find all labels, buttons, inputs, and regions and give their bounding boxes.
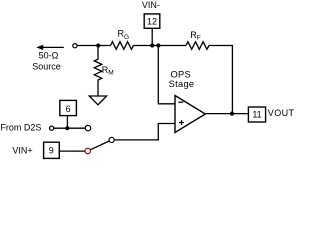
- From D2S terminal circle: [50, 126, 54, 130]
- wire: inverting input from net: [158, 46, 175, 104]
- label: 50-ohm Source: [32, 50, 61, 71]
- arrow annotation to 50-ohm source: [36, 45, 64, 50]
- svg-text:Stage: Stage: [169, 79, 195, 89]
- wire: RG to RF: [134, 45, 187, 47]
- svg-text:VIN+: VIN+: [12, 146, 32, 156]
- op-amp U1 (OPS stage): [175, 96, 205, 133]
- wire: RF to feedback corner: [209, 45, 233, 47]
- pin 6 box: [60, 100, 77, 115]
- svg-text:12: 12: [147, 16, 157, 26]
- svg-text:Source: Source: [32, 61, 61, 71]
- svg-text:6: 6: [66, 104, 71, 114]
- label RM: [102, 65, 114, 77]
- wire: op-amp output to pin 11: [205, 113, 248, 115]
- switch arm: [90, 141, 109, 150]
- resistor RF: [186, 42, 209, 50]
- ground: [89, 96, 106, 105]
- junction dot: pin 12 connection: [150, 43, 154, 47]
- switch pole circle: [109, 137, 114, 142]
- svg-text:9: 9: [49, 146, 54, 156]
- label RG: [118, 29, 130, 41]
- svg-text:F: F: [197, 35, 201, 42]
- pin 11 box: [248, 107, 265, 122]
- wire: pin 12 to net: [151, 28, 153, 45]
- wire: terminal to RG: [77, 45, 110, 47]
- resistor RG: [111, 42, 134, 50]
- switch throw circle: VIN+ side (red): [85, 148, 90, 153]
- wire: pin 9 to switch: [59, 150, 85, 152]
- junction dot: pin 6 tap: [65, 126, 69, 130]
- svg-text:G: G: [124, 34, 129, 41]
- svg-text:M: M: [108, 70, 113, 77]
- junction dot: output node: [230, 112, 234, 116]
- wire: From D2S line: [54, 127, 85, 129]
- wire: feedback vertical: [231, 45, 233, 114]
- switch throw circle: From D2S side: [85, 125, 90, 130]
- svg-text:VIN-: VIN-: [142, 0, 160, 10]
- junction dot: inverting input branch: [156, 43, 160, 47]
- wire: noninverting input from switch: [114, 124, 175, 140]
- svg-text:50-Ω: 50-Ω: [39, 50, 59, 60]
- resistor RM (vertical): [94, 46, 102, 96]
- label OPS Stage: [169, 69, 195, 89]
- svg-text:VOUT: VOUT: [268, 108, 295, 118]
- svg-text:11: 11: [252, 110, 261, 120]
- svg-text:From D2S: From D2S: [0, 122, 41, 132]
- junction dot: RM tap node: [96, 43, 100, 47]
- input terminal circle: [73, 44, 77, 48]
- wire: pin 6 to D2S line: [66, 116, 68, 129]
- pin 12 box: [144, 14, 160, 28]
- label RF: [190, 30, 201, 42]
- svg-text:OPS: OPS: [171, 69, 192, 79]
- pin 9 box: [44, 142, 60, 158]
